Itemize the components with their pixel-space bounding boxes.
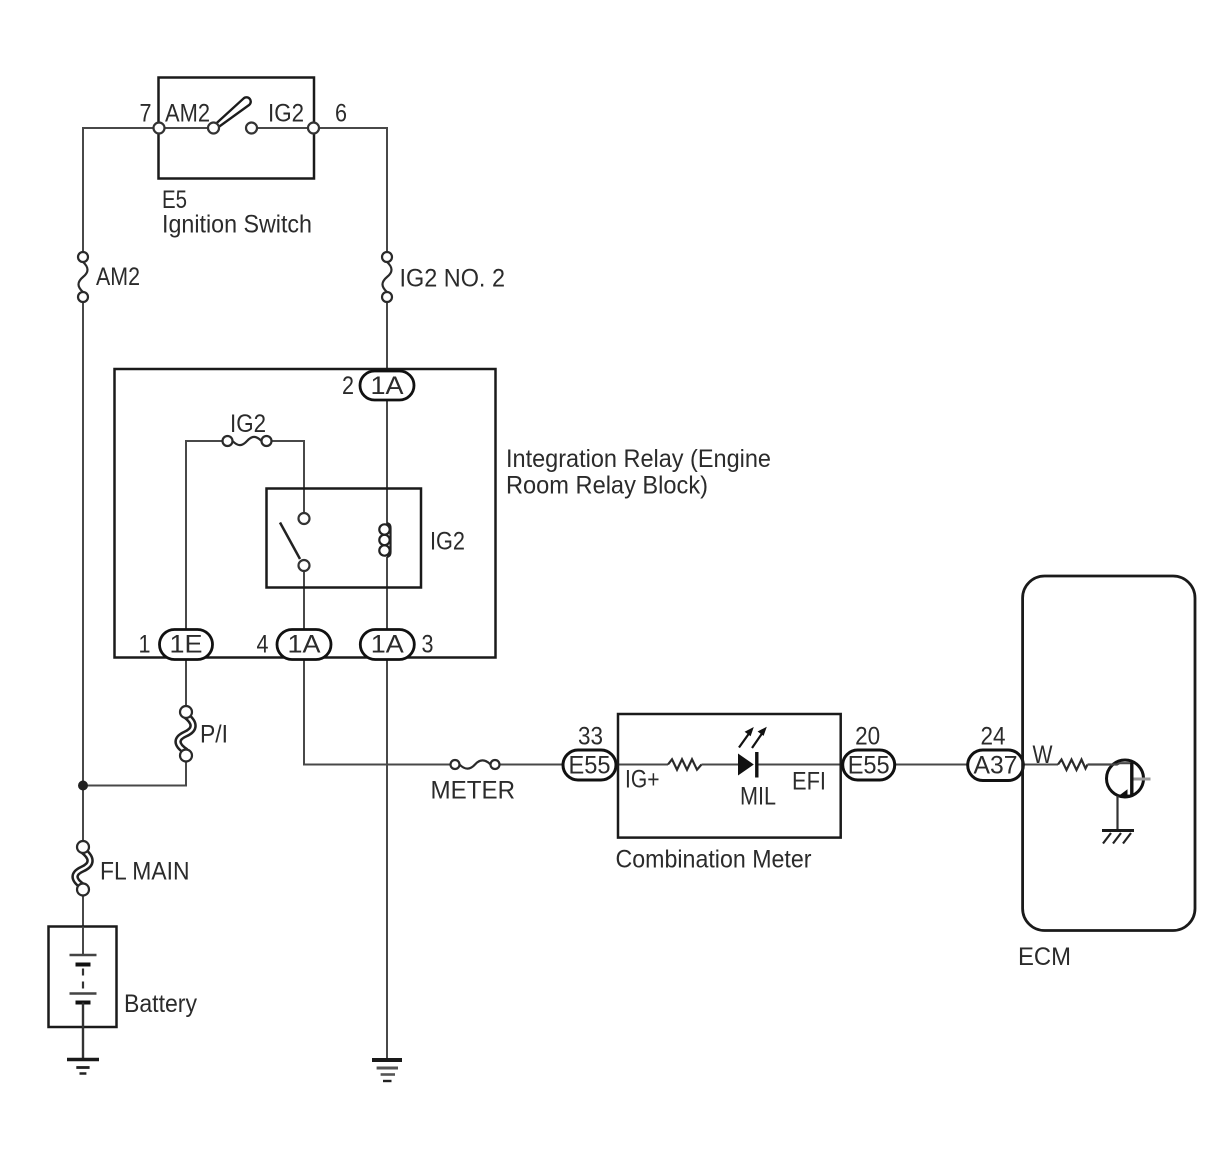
integration relay outer box <box>115 369 496 658</box>
fusible link FL MAIN <box>75 841 90 896</box>
svg-text:20: 20 <box>855 723 880 751</box>
svg-text:Integration Relay (Engine: Integration Relay (Engine <box>506 445 771 473</box>
wire: battery negative lead to ground <box>82 1003 84 1059</box>
svg-text:EFI: EFI <box>792 768 826 796</box>
fuse IG2 NO. 2 <box>382 252 392 302</box>
svg-text:IG+: IG+ <box>625 766 660 794</box>
svg-text:6: 6 <box>335 100 347 128</box>
connector oval A37 pin 24 <box>968 750 1024 781</box>
terminal circle pin 7 <box>154 123 165 134</box>
wire: connector E55 pin 20 to connector A37 pin 24 <box>895 764 968 766</box>
wire: transistor emitter to ECM ground <box>1116 796 1118 830</box>
wire: ignition switch internal AM2 side <box>165 127 209 129</box>
svg-text:FL MAIN: FL MAIN <box>100 858 190 886</box>
svg-text:Combination Meter: Combination Meter <box>616 846 812 874</box>
wire: connector 1A pin 4 down then right to METER fuse <box>304 660 451 765</box>
svg-text:1E: 1E <box>170 631 203 659</box>
LED MIL anode triangle <box>738 754 754 776</box>
battery plate short bottom <box>76 1001 91 1005</box>
svg-text:1A: 1A <box>371 372 404 400</box>
fusible link P/I <box>178 706 193 762</box>
relay switch bottom contact <box>299 560 310 571</box>
fuse AM2 <box>78 252 88 302</box>
svg-text:METER: METER <box>431 777 516 805</box>
wire: connector A37 pin 24 into ECM toward resistor <box>1023 764 1058 766</box>
wire: battery top lead <box>82 927 84 956</box>
svg-text:IG2 NO. 2: IG2 NO. 2 <box>400 265 506 293</box>
ignition switch box E5 <box>159 78 315 179</box>
wire: connector 1E pin 1 up to IG2 fuse left end <box>186 441 223 630</box>
wire: ignition switch internal IG2 side <box>257 127 308 129</box>
wire: connector E55 pin 33 into combination meter toward resistor <box>616 764 668 766</box>
LED emission arrow 1 <box>739 727 754 748</box>
svg-text:ECM: ECM <box>1018 943 1071 971</box>
svg-text:IG2: IG2 <box>430 528 465 556</box>
combination meter box <box>618 714 841 838</box>
transistor emitter connector <box>1119 795 1132 797</box>
battery cell dashed link <box>82 969 84 990</box>
wire: METER fuse to connector E55 pin 33 <box>500 764 564 766</box>
svg-text:3: 3 <box>422 631 434 659</box>
svg-text:24: 24 <box>981 723 1006 751</box>
transistor emitter arrow <box>1118 789 1128 798</box>
wire: relay coil down to connector 1A pin 3 <box>386 557 388 630</box>
relay switch blade <box>280 523 300 560</box>
terminal circle pin 6 <box>308 123 319 134</box>
svg-text:Battery: Battery <box>124 990 197 1018</box>
transistor base bar <box>1130 763 1133 797</box>
LED MIL cathode bar <box>755 752 758 778</box>
wire: relay switch bottom contact to connector 1A pin 4 <box>303 571 305 630</box>
svg-text:P/I: P/I <box>200 721 228 749</box>
svg-text:IG2: IG2 <box>268 100 304 128</box>
wire: connector 1E pin 1 down to P/I fusible link <box>185 660 187 707</box>
wire: ignition pin 7 to left vertical drop toward AM2 fuse <box>83 128 159 257</box>
svg-text:1A: 1A <box>371 631 404 659</box>
svg-text:MIL: MIL <box>740 783 776 811</box>
resistor in combination meter <box>668 759 702 769</box>
relay inner box <box>267 489 422 588</box>
wire: connector 1A pin 2 down to relay coil <box>386 400 388 524</box>
svg-text:Room Relay Block): Room Relay Block) <box>506 472 708 500</box>
svg-text:A37: A37 <box>974 752 1018 780</box>
battery plate long top <box>70 954 97 957</box>
wire: connector 1A pin 3 down to body ground <box>386 660 388 1059</box>
wire: IG2 NO. 2 fuse down to relay connector 1A pin 2 <box>386 297 388 371</box>
wire: MIL LED cathode to connector E55 pin 20 <box>757 764 843 766</box>
wire: P/I fusible link down and left to junction node A <box>83 762 186 786</box>
wire: resistor to transistor collector connector <box>1088 763 1132 764</box>
connector oval E55 pin 20 <box>843 750 895 780</box>
connector oval 1A pin 2 <box>360 371 414 400</box>
LED emission arrow 2 <box>752 727 767 748</box>
svg-text:1A: 1A <box>288 631 321 659</box>
ground: relay pin 3 wire <box>372 1060 402 1081</box>
svg-text:AM2: AM2 <box>96 263 140 291</box>
junction node A <box>78 781 88 791</box>
svg-text:E55: E55 <box>569 752 611 780</box>
wire: AM2 fuse to junction node A and on to FL MAIN <box>82 297 84 847</box>
switch blade of ignition switch <box>215 97 251 127</box>
battery box <box>49 927 117 1028</box>
fuse IG2 inside relay block <box>223 436 272 446</box>
ground: battery <box>67 1060 99 1074</box>
svg-text:AM2: AM2 <box>165 100 210 128</box>
ECM box <box>1023 576 1195 931</box>
svg-text:7: 7 <box>140 100 152 128</box>
svg-text:W: W <box>1033 741 1053 769</box>
relay coil IG2 <box>379 523 390 557</box>
connector oval E55 pin 33 <box>563 750 616 780</box>
fuse METER <box>451 760 500 769</box>
battery plate short top <box>76 963 91 967</box>
svg-text:Ignition Switch: Ignition Switch <box>162 211 312 239</box>
ground: ECM internal <box>1102 831 1134 844</box>
svg-text:1: 1 <box>139 631 151 659</box>
svg-text:IG2: IG2 <box>230 410 266 438</box>
wire: ignition pin 6 to right vertical drop toward IG2 NO. 2 fuse <box>314 128 388 257</box>
wire: FL MAIN to battery positive <box>82 890 84 927</box>
svg-text:4: 4 <box>257 631 269 659</box>
contact circle IG2 <box>246 123 257 134</box>
svg-text:33: 33 <box>578 723 603 751</box>
svg-text:E55: E55 <box>848 752 890 780</box>
resistor in ECM <box>1058 760 1088 771</box>
contact circle AM2 <box>208 123 219 134</box>
connector oval 1A pin 3 <box>360 630 414 660</box>
svg-text:2: 2 <box>342 372 354 400</box>
connector oval 1A pin 4 <box>277 630 331 660</box>
transistor base stub <box>1134 778 1151 781</box>
battery plate long bottom <box>70 992 97 995</box>
wire: meter resistor to MIL LED anode <box>702 764 739 766</box>
transistor Q1 circle <box>1107 760 1144 797</box>
relay switch top contact <box>299 513 310 524</box>
connector oval 1E pin 1 <box>160 630 213 660</box>
wire: IG2 fuse right end to relay switch top contact <box>272 441 305 513</box>
